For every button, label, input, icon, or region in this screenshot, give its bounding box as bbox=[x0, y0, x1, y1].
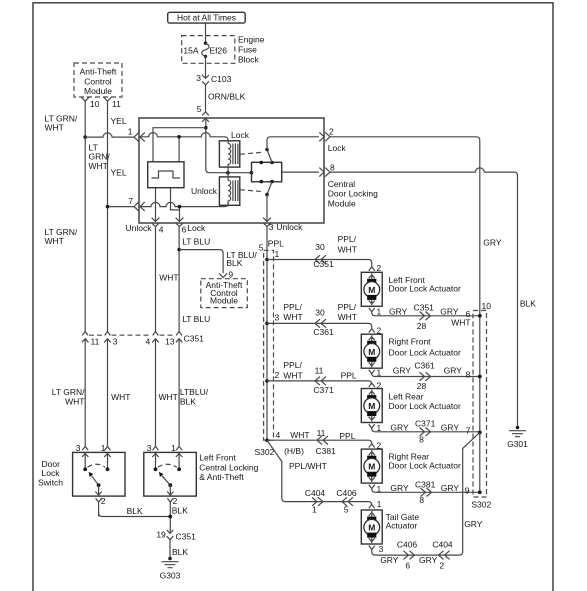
svg-text:Unlock: Unlock bbox=[276, 222, 303, 232]
fuse block Ef26 dashed box bbox=[182, 36, 235, 64]
svg-text:3: 3 bbox=[269, 222, 274, 232]
svg-text:BLK: BLK bbox=[127, 506, 143, 516]
wire pulse box to pin 6 jog bbox=[171, 188, 180, 222]
svg-text:6: 6 bbox=[405, 560, 410, 570]
svg-text:GRY: GRY bbox=[419, 555, 438, 565]
pulse generator box bbox=[148, 162, 184, 188]
wire pin 7 to YEL bbox=[106, 205, 134, 209]
svg-text:11: 11 bbox=[317, 428, 326, 438]
module pin 8 chevrons bbox=[319, 163, 335, 177]
connector S302 dashed box right bbox=[471, 301, 491, 510]
svg-text:2: 2 bbox=[275, 370, 280, 380]
svg-text:S302: S302 bbox=[255, 447, 275, 457]
svg-text:3: 3 bbox=[147, 443, 152, 453]
svg-text:Unlock: Unlock bbox=[126, 223, 153, 233]
svg-text:(H/B): (H/B) bbox=[284, 446, 304, 456]
svg-text:1: 1 bbox=[101, 443, 106, 453]
switch 1 pin 1 entry bbox=[101, 443, 111, 469]
connector C381 pin 11 row 4 bbox=[316, 428, 356, 456]
wire row 4 WHT to right rear bbox=[267, 430, 372, 444]
svg-text:C351: C351 bbox=[414, 303, 435, 313]
svg-text:GRY: GRY bbox=[390, 483, 409, 493]
svg-text:Module: Module bbox=[210, 296, 238, 306]
svg-text:GRY: GRY bbox=[441, 483, 460, 493]
svg-text:28: 28 bbox=[417, 321, 427, 331]
svg-text:30: 30 bbox=[315, 242, 325, 252]
wire pulse box to pin 4 bbox=[155, 188, 157, 222]
wire module pin 2 to GRY vertical bbox=[330, 137, 502, 493]
svg-text:BLK: BLK bbox=[180, 396, 196, 406]
svg-text:Door Lock Actuator: Door Lock Actuator bbox=[389, 348, 461, 358]
module pin 2 chevrons bbox=[319, 126, 346, 153]
svg-text:19: 19 bbox=[156, 530, 166, 540]
fuse Ef26 15A bbox=[183, 42, 227, 59]
svg-text:C404: C404 bbox=[305, 488, 326, 498]
svg-text:Lock: Lock bbox=[231, 130, 250, 140]
svg-text:WHT: WHT bbox=[45, 123, 64, 133]
svg-text:WHT: WHT bbox=[338, 312, 357, 322]
svg-text:11: 11 bbox=[315, 366, 324, 376]
svg-text:Actuator: Actuator bbox=[386, 520, 418, 530]
svg-text:GRY: GRY bbox=[380, 555, 399, 565]
wire pin 4 WHT column bbox=[156, 227, 179, 332]
relay coil unlock bbox=[191, 173, 240, 207]
svg-text:C406: C406 bbox=[397, 540, 418, 550]
wire YEL from pin 11 bbox=[108, 101, 127, 331]
svg-text:2: 2 bbox=[377, 263, 382, 273]
wire fuse to C103 bbox=[205, 56, 207, 78]
relay contact box bbox=[252, 161, 282, 184]
svg-text:GRY: GRY bbox=[444, 366, 463, 376]
wire ORN/BLK bbox=[206, 85, 246, 112]
wire WHT lower left bbox=[108, 347, 131, 446]
svg-text:WHT: WHT bbox=[65, 396, 84, 406]
wire left rear pin1 GRY bbox=[372, 423, 480, 436]
svg-text:WHT: WHT bbox=[111, 392, 130, 402]
anti-theft control module (top left) bbox=[74, 63, 122, 97]
connector C371 pin 11 row 2 bbox=[313, 366, 357, 396]
svg-text:3: 3 bbox=[76, 443, 81, 453]
svg-text:PPL/: PPL/ bbox=[283, 360, 302, 370]
svg-text:PPL: PPL bbox=[341, 371, 357, 381]
motor M tail gate actuator bbox=[361, 499, 419, 554]
module pin 7 chevrons bbox=[128, 196, 145, 211]
dashed link lock coil to arm bbox=[240, 152, 263, 154]
svg-text:Block: Block bbox=[238, 55, 260, 65]
svg-text:Fuse: Fuse bbox=[238, 45, 257, 55]
connector C361 pin 30 row 3 bbox=[313, 302, 357, 337]
svg-text:WHT: WHT bbox=[283, 371, 302, 381]
svg-text:Module: Module bbox=[328, 199, 356, 209]
svg-text:Anti-Theft: Anti-Theft bbox=[80, 67, 117, 77]
svg-text:WHT: WHT bbox=[159, 392, 178, 402]
wire row 3 PPL/WHT to right front bbox=[267, 302, 372, 329]
svg-text:4: 4 bbox=[159, 225, 164, 235]
wire to module pin 1 bbox=[85, 133, 133, 137]
wire right front pin1 GRY bbox=[372, 366, 480, 380]
svg-text:BLK: BLK bbox=[226, 258, 242, 268]
svg-text:3: 3 bbox=[196, 73, 201, 83]
svg-text:C361: C361 bbox=[313, 327, 334, 337]
anti-theft control module (middle) bbox=[201, 279, 248, 308]
svg-text:8: 8 bbox=[466, 370, 471, 380]
svg-text:C351: C351 bbox=[184, 333, 205, 343]
svg-text:8: 8 bbox=[419, 495, 424, 505]
pin 9 of anti-theft module 2 bbox=[219, 269, 233, 279]
svg-text:2: 2 bbox=[439, 560, 444, 570]
wire PPL main vertical bbox=[259, 227, 284, 442]
module pin 4 exit chevrons bbox=[126, 218, 164, 235]
svg-text:WHT: WHT bbox=[338, 244, 357, 254]
svg-text:8: 8 bbox=[330, 163, 335, 173]
wire pin 1 inside module bbox=[139, 133, 228, 144]
module pin 3 exit chevrons bbox=[263, 218, 303, 232]
svg-text:WHT: WHT bbox=[159, 273, 178, 283]
wire PPL/WHT diagonal to tail gate bbox=[267, 440, 372, 505]
svg-text:& Anti-Theft: & Anti-Theft bbox=[199, 472, 244, 482]
svg-text:1: 1 bbox=[171, 443, 176, 453]
svg-text:6: 6 bbox=[182, 225, 187, 235]
connector C351 row dashed link bbox=[89, 334, 175, 336]
wire LTBLU/BLK lower bbox=[179, 347, 209, 446]
connector C361 pin 28 row bbox=[414, 360, 435, 391]
svg-text:PPL/: PPL/ bbox=[338, 302, 357, 312]
svg-text:2: 2 bbox=[173, 496, 178, 506]
svg-text:Door Locking: Door Locking bbox=[328, 188, 378, 198]
connector C371 pin 8 row bbox=[415, 419, 436, 445]
svg-text:9: 9 bbox=[228, 269, 233, 279]
motor M left rear door lock actuator bbox=[361, 380, 461, 433]
motor M right rear door lock actuator bbox=[361, 440, 461, 494]
wire pin 8 inside bbox=[282, 171, 319, 173]
connector C351 pin 3 bbox=[104, 332, 118, 348]
svg-text:Door Lock Actuator: Door Lock Actuator bbox=[389, 401, 461, 411]
svg-text:C371: C371 bbox=[313, 385, 334, 395]
svg-text:Unlock: Unlock bbox=[191, 186, 218, 196]
node junction pin1 wire bbox=[83, 135, 87, 139]
door lock switch box bbox=[38, 452, 125, 496]
svg-text:15A: 15A bbox=[183, 45, 198, 55]
svg-text:YEL: YEL bbox=[111, 168, 127, 178]
svg-text:PPL: PPL bbox=[339, 431, 355, 441]
svg-text:WHT: WHT bbox=[45, 236, 64, 246]
node Hot at All Times bbox=[168, 12, 246, 23]
svg-text:Ef26: Ef26 bbox=[210, 45, 228, 55]
wire LT GRN/WHT from pin 10 bbox=[45, 101, 86, 331]
connector C351 pin 11 bbox=[82, 332, 100, 348]
svg-text:30: 30 bbox=[315, 307, 325, 317]
svg-text:7: 7 bbox=[128, 196, 133, 206]
module pin 6 exit chevrons bbox=[176, 218, 206, 235]
connector C351 pin 19 bbox=[156, 530, 196, 542]
relay arm lower bbox=[265, 182, 272, 197]
svg-text:C404: C404 bbox=[432, 540, 453, 550]
svg-text:Lock: Lock bbox=[187, 223, 206, 233]
motor M left front door lock actuator bbox=[361, 263, 461, 317]
svg-text:Hot at All Times: Hot at All Times bbox=[177, 13, 236, 23]
svg-text:Lock: Lock bbox=[328, 143, 347, 153]
svg-text:PPL/: PPL/ bbox=[338, 234, 357, 244]
svg-text:Central Locking: Central Locking bbox=[199, 462, 258, 472]
connector C351 pin 28 row 1 bbox=[414, 303, 435, 331]
svg-text:1: 1 bbox=[275, 249, 280, 259]
wire pulse generator top right riser bbox=[177, 135, 181, 162]
switch 2 pin 3 entry bbox=[147, 443, 159, 469]
svg-text:WHT: WHT bbox=[283, 312, 302, 322]
svg-text:GRY: GRY bbox=[393, 366, 412, 376]
svg-text:3: 3 bbox=[379, 544, 384, 554]
svg-text:GRY: GRY bbox=[483, 238, 502, 248]
relay arm upper bbox=[265, 148, 272, 163]
svg-text:3: 3 bbox=[275, 312, 280, 322]
svg-text:4: 4 bbox=[276, 430, 281, 440]
svg-text:GRY: GRY bbox=[390, 423, 409, 433]
svg-text:1: 1 bbox=[128, 127, 133, 137]
svg-text:4: 4 bbox=[145, 337, 150, 347]
relay coil lock bbox=[219, 130, 249, 173]
svg-text:8: 8 bbox=[419, 435, 424, 445]
svg-text:2: 2 bbox=[329, 126, 334, 136]
connector C404 pin 1 bbox=[305, 488, 326, 514]
svg-text:C381: C381 bbox=[415, 480, 436, 490]
svg-text:C351: C351 bbox=[176, 532, 197, 542]
switch 1 pin 2 exit bbox=[96, 496, 106, 517]
svg-text:BLK: BLK bbox=[520, 299, 536, 309]
connector S302 (H/B) dashed box left bbox=[255, 250, 305, 457]
svg-text:10: 10 bbox=[482, 301, 492, 311]
svg-text:WHT: WHT bbox=[451, 317, 470, 327]
svg-text:GRY: GRY bbox=[441, 423, 460, 433]
svg-text:Door Lock Actuator: Door Lock Actuator bbox=[389, 460, 461, 470]
module pin 1 chevrons bbox=[128, 127, 145, 142]
connector C406 pin 5 bbox=[336, 488, 357, 514]
ground G303 bbox=[160, 557, 181, 581]
svg-text:PPL: PPL bbox=[268, 238, 284, 248]
svg-text:Left Front: Left Front bbox=[199, 453, 236, 463]
module pin 5 entry bbox=[197, 104, 209, 122]
svg-text:WHT: WHT bbox=[290, 430, 309, 440]
svg-text:Left Rear: Left Rear bbox=[389, 391, 424, 401]
svg-text:C381: C381 bbox=[316, 446, 337, 456]
wire LT GRN/WHT lower bbox=[45, 227, 86, 447]
connector C406 pin 6 bbox=[397, 540, 418, 571]
svg-text:GRY: GRY bbox=[440, 306, 459, 316]
svg-text:Switch: Switch bbox=[38, 477, 63, 487]
switch 1 contacts and arm bbox=[83, 464, 109, 495]
svg-text:13: 13 bbox=[165, 337, 175, 347]
ground G301 bbox=[507, 426, 528, 449]
wire pin 2 inside bbox=[267, 137, 319, 150]
svg-text:GRY: GRY bbox=[464, 519, 483, 529]
svg-text:2: 2 bbox=[377, 326, 382, 336]
wire row 2 PPL/WHT to left rear bbox=[267, 360, 372, 384]
connector C351 pin 13 bbox=[165, 332, 204, 348]
svg-text:C351: C351 bbox=[313, 259, 334, 269]
wire pin 5 inside module bbox=[204, 118, 253, 175]
svg-text:PPL/WHT: PPL/WHT bbox=[289, 461, 327, 471]
svg-text:11: 11 bbox=[112, 99, 121, 109]
svg-text:C361: C361 bbox=[414, 360, 435, 370]
svg-text:2: 2 bbox=[101, 496, 106, 506]
svg-text:ORN/BLK: ORN/BLK bbox=[208, 92, 246, 102]
wire branch LT BLU/BLK to anti-theft bbox=[179, 250, 257, 274]
dashed link unlock coil to arm bbox=[240, 190, 263, 192]
svg-text:1: 1 bbox=[312, 504, 317, 514]
svg-text:BLK: BLK bbox=[172, 506, 188, 516]
switch 2 pin 1 entry bbox=[171, 443, 182, 469]
svg-text:7: 7 bbox=[466, 425, 471, 435]
wire BLK switch1 to switch2 bbox=[99, 506, 173, 518]
wire pin 3 unlock inside bbox=[266, 195, 268, 222]
svg-text:C406: C406 bbox=[336, 488, 357, 498]
svg-text:5: 5 bbox=[259, 243, 264, 253]
op-amp U1 central door locking module box bbox=[139, 118, 324, 223]
svg-text:C371: C371 bbox=[415, 419, 436, 429]
switch 2 contacts and arm bbox=[154, 464, 181, 495]
svg-text:LT BLU: LT BLU bbox=[182, 237, 210, 247]
svg-text:PPL/: PPL/ bbox=[283, 302, 302, 312]
wire battery feed bbox=[205, 23, 207, 43]
connector C351 pin 4 bbox=[145, 332, 158, 348]
svg-text:GRY: GRY bbox=[389, 306, 408, 316]
svg-text:LT BLU: LT BLU bbox=[182, 314, 210, 324]
label LT GRN/WHT vertical bbox=[89, 142, 111, 170]
connector C103 pin 3 bbox=[196, 73, 231, 85]
switch 2 pin 2 exit bbox=[167, 496, 188, 533]
svg-text:Module: Module bbox=[84, 86, 112, 96]
svg-text:2: 2 bbox=[377, 380, 382, 390]
wire module pin 7 line bbox=[139, 202, 228, 208]
svg-text:WHT: WHT bbox=[89, 161, 108, 171]
wire branch to pulse generator bbox=[153, 128, 206, 162]
wire pin 6 LT BLU column bbox=[177, 227, 210, 332]
svg-text:Right Front: Right Front bbox=[389, 336, 432, 346]
label Central Door Locking Module bbox=[328, 179, 378, 209]
wire right rear pin1 GRY bbox=[372, 483, 480, 496]
svg-text:9: 9 bbox=[465, 486, 470, 496]
motor M right front door lock actuator bbox=[361, 326, 461, 378]
svg-text:1: 1 bbox=[377, 499, 382, 509]
svg-text:C103: C103 bbox=[211, 74, 232, 84]
connector C351 pin 30 row 1 bbox=[313, 234, 357, 269]
svg-text:10: 10 bbox=[90, 99, 100, 109]
label Engine Fuse Block bbox=[238, 35, 265, 65]
svg-text:5: 5 bbox=[344, 504, 349, 514]
left front central locking switch box bbox=[144, 452, 259, 496]
wire WHT lower mid bbox=[156, 347, 178, 446]
pin 11 of anti-theft module bbox=[104, 97, 122, 109]
svg-text:2: 2 bbox=[377, 440, 382, 450]
connector C381 pin 8 row bbox=[415, 480, 436, 506]
wire BLK to ground bbox=[170, 540, 188, 559]
svg-text:3: 3 bbox=[113, 337, 118, 347]
svg-text:S302: S302 bbox=[471, 500, 491, 510]
svg-text:BLK: BLK bbox=[172, 547, 188, 557]
wire row 1 PPL to left front bbox=[267, 249, 372, 267]
wire module pin 8 to BLK vertical bbox=[330, 168, 536, 428]
svg-text:YEL: YEL bbox=[111, 116, 127, 126]
svg-text:5: 5 bbox=[197, 104, 202, 114]
pin 10 of anti-theft module bbox=[81, 97, 100, 109]
svg-text:11: 11 bbox=[91, 337, 100, 347]
svg-text:G303: G303 bbox=[160, 571, 181, 581]
svg-text:1: 1 bbox=[377, 307, 382, 317]
wire tail gate pin 3 GRY return bbox=[372, 432, 483, 564]
switch 1 pin 3 entry bbox=[76, 443, 89, 469]
wire left front pin1 GRY bbox=[372, 306, 480, 327]
svg-text:28: 28 bbox=[417, 381, 427, 391]
connector C404 pin 2 bbox=[432, 540, 453, 571]
svg-text:Engine: Engine bbox=[238, 35, 265, 45]
svg-text:G301: G301 bbox=[507, 439, 528, 449]
svg-text:Door Lock Actuator: Door Lock Actuator bbox=[389, 283, 461, 293]
